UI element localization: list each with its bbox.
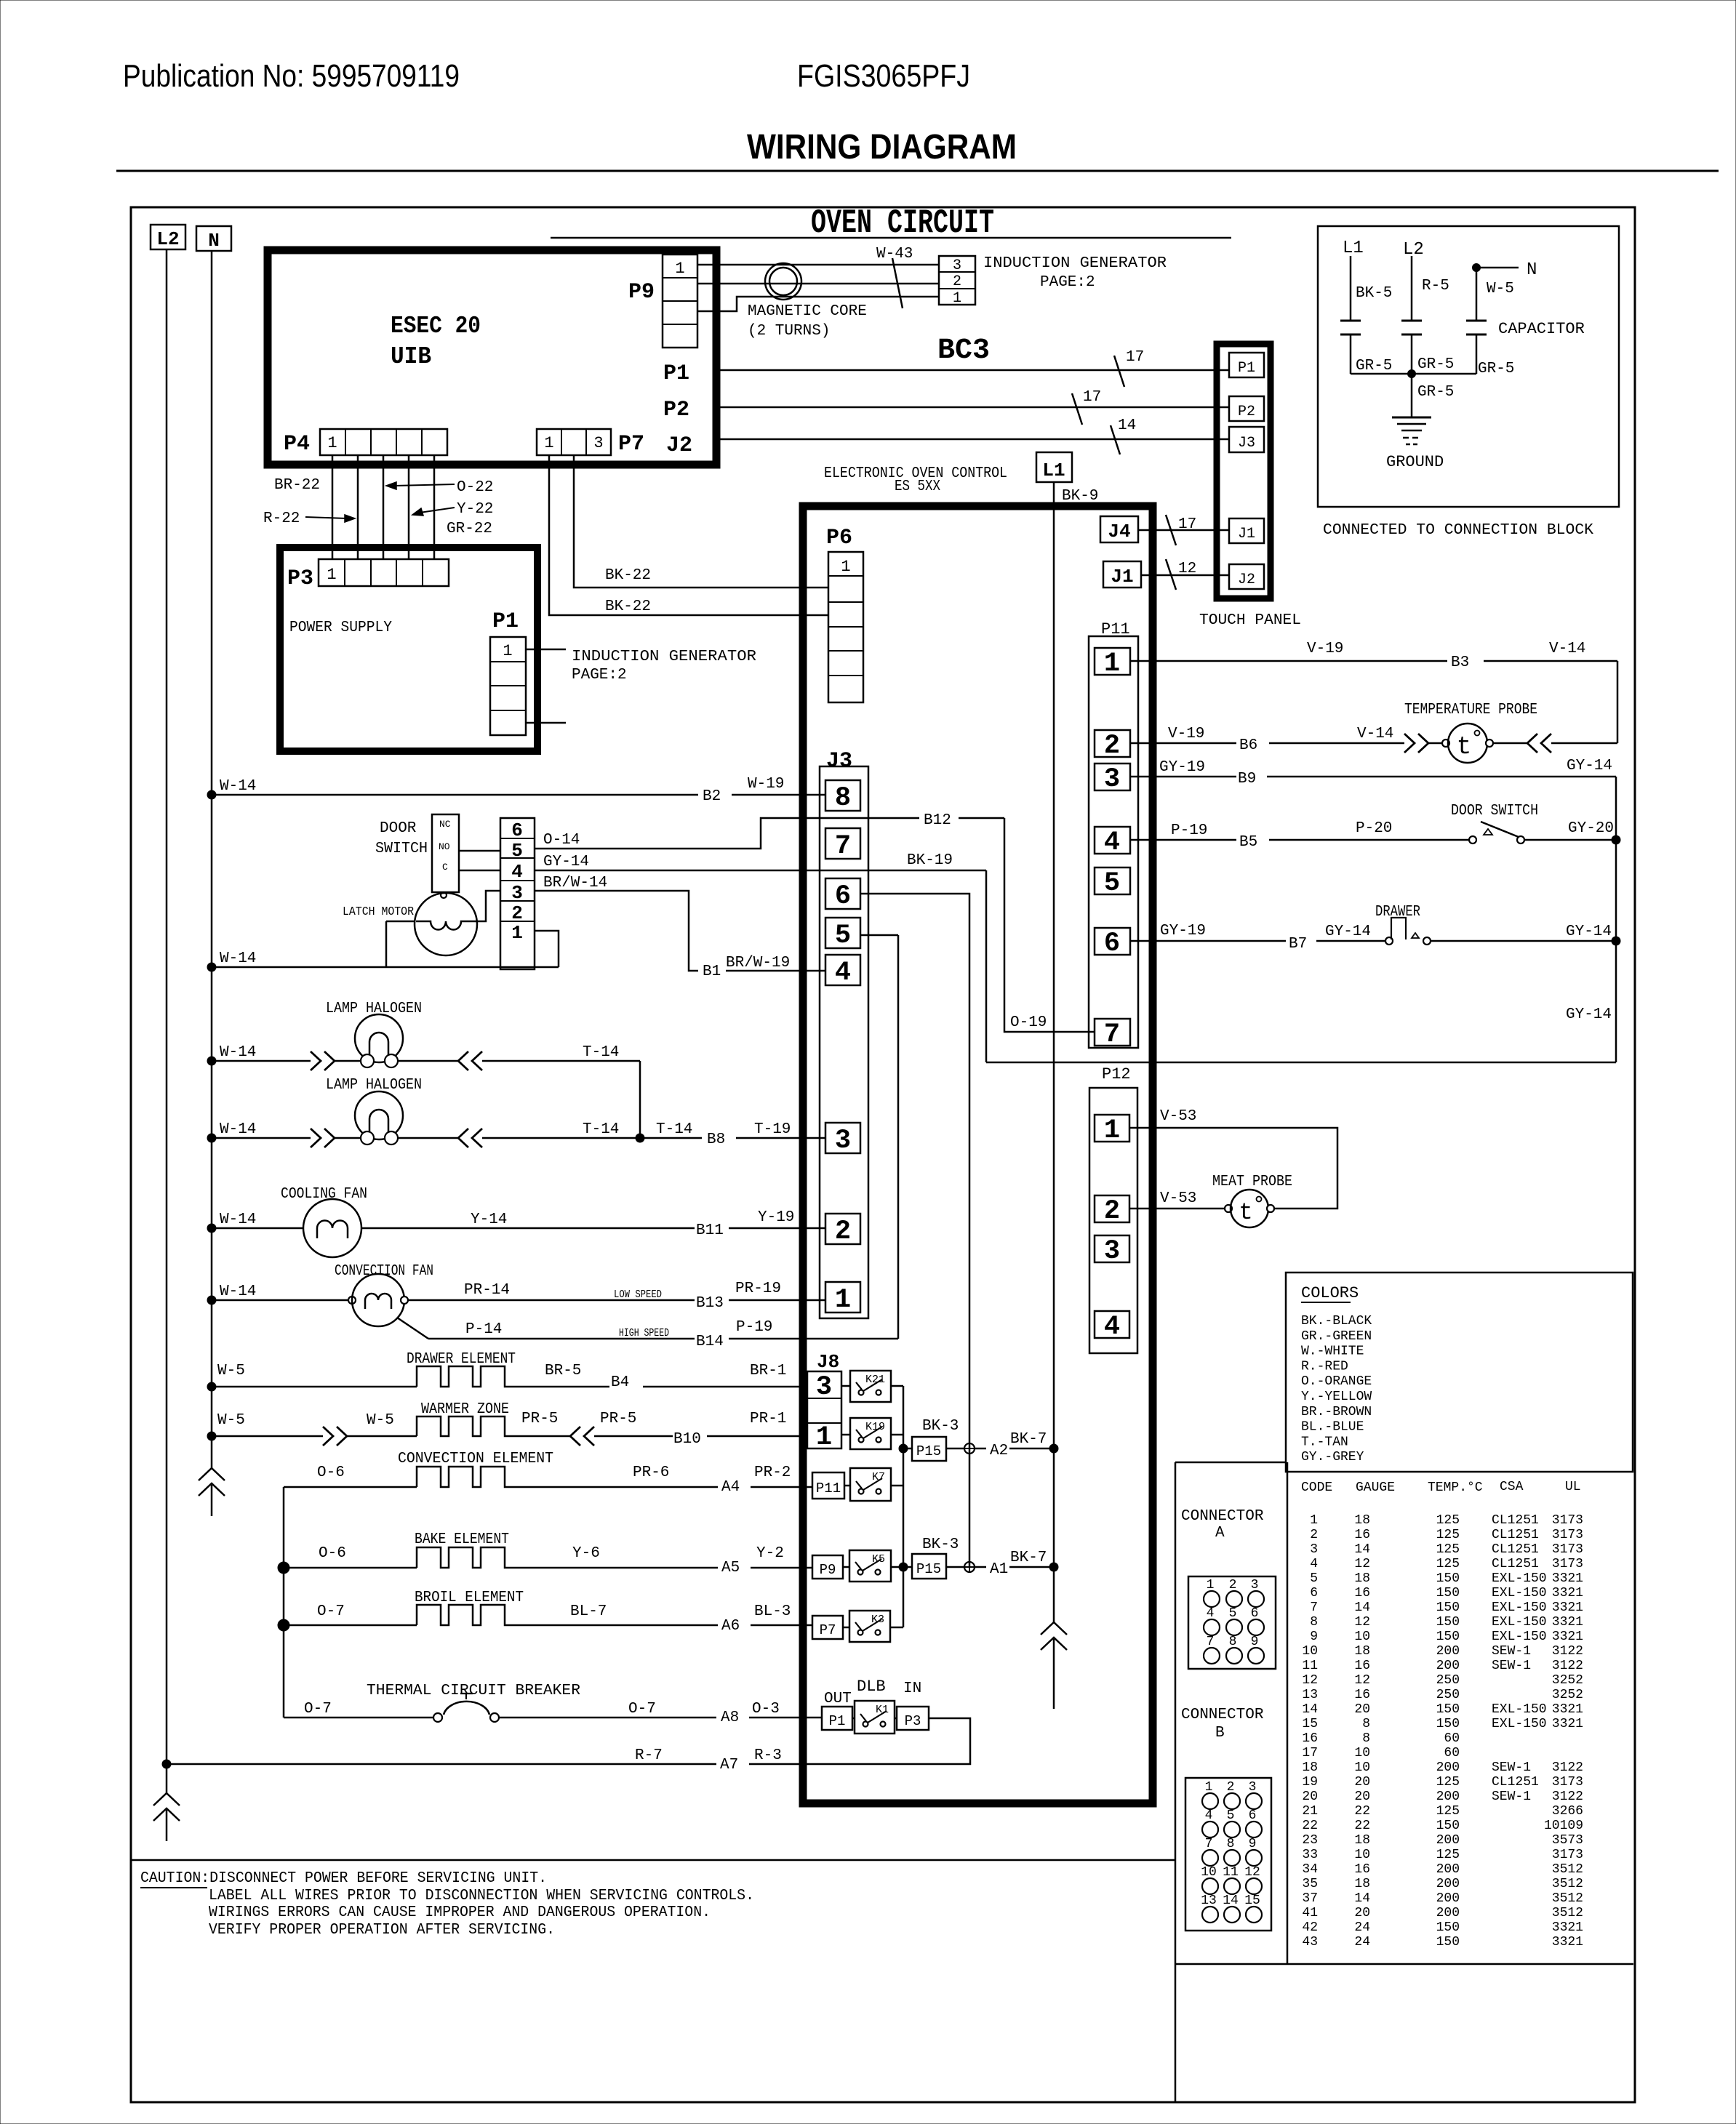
svg-text:3: 3	[1310, 1542, 1318, 1557]
svg-text:18: 18	[1354, 1571, 1370, 1586]
door switch contact (right)	[1469, 836, 1476, 843]
svg-text:B4: B4	[611, 1374, 629, 1391]
svg-text:BK-19: BK-19	[907, 852, 953, 869]
svg-text:BK-3: BK-3	[922, 1418, 959, 1435]
svg-text:4: 4	[835, 958, 851, 988]
svg-text:4: 4	[1207, 1606, 1215, 1621]
wire W-14 top row to J3-8 (B2/W-19)	[207, 790, 216, 799]
wire BK-22 lower (P7-1 to P6-3)	[549, 455, 828, 615]
svg-text:22: 22	[1302, 1819, 1318, 1833]
svg-text:2: 2	[1104, 1196, 1120, 1227]
svg-text:3252: 3252	[1552, 1688, 1583, 1702]
junction dot GR-5 bus	[1408, 370, 1416, 378]
svg-text:3: 3	[816, 1372, 832, 1403]
wire K7 to relay bus	[891, 1485, 903, 1487]
connector J3 pin 5	[825, 918, 860, 948]
thermal circuit breaker	[284, 1717, 433, 1719]
svg-text:125: 125	[1436, 1848, 1460, 1862]
svg-text:37: 37	[1302, 1891, 1318, 1906]
svg-text:150: 150	[1436, 1586, 1460, 1600]
svg-text:SEW-1: SEW-1	[1492, 1760, 1531, 1775]
svg-text:150: 150	[1436, 1571, 1460, 1586]
svg-text:1: 1	[511, 922, 523, 944]
svg-text:Y-6: Y-6	[572, 1545, 600, 1562]
connector J3 pin 1	[825, 1282, 860, 1313]
svg-text:20: 20	[1354, 1702, 1370, 1717]
svg-text:42: 42	[1302, 1920, 1318, 1935]
svg-text:20: 20	[1302, 1790, 1318, 1804]
svg-text:3252: 3252	[1552, 1673, 1583, 1688]
svg-text:THERMAL CIRCUIT BREAKER: THERMAL CIRCUIT BREAKER	[367, 1683, 580, 1699]
svg-text:CONNECTED TO CONNECTION BLOCK: CONNECTED TO CONNECTION BLOCK	[1323, 522, 1593, 539]
svg-text:7: 7	[835, 831, 851, 862]
svg-text:O-7: O-7	[304, 1701, 332, 1718]
latch motor	[415, 893, 477, 955]
connector J8 (3 positions)	[807, 1371, 841, 1448]
svg-text:J1: J1	[1111, 566, 1133, 588]
wire latch motor to W-14 loop	[386, 921, 415, 923]
svg-text:200: 200	[1436, 1862, 1460, 1877]
svg-text:B10: B10	[673, 1431, 701, 1448]
svg-text:BL-3: BL-3	[754, 1603, 791, 1620]
svg-text:GR-5: GR-5	[1478, 361, 1514, 377]
wire A1 row BK-3/BK-7	[946, 1566, 964, 1568]
svg-text:P-19: P-19	[1171, 822, 1207, 839]
svg-text:T-14: T-14	[583, 1121, 619, 1138]
touch panel connector J1	[1229, 518, 1264, 543]
svg-text:P15: P15	[916, 1443, 941, 1459]
connector P11 pin 1	[1095, 648, 1130, 675]
wire J8-1 to K19	[841, 1434, 850, 1436]
svg-text:22: 22	[1354, 1804, 1370, 1819]
svg-text:GR-5: GR-5	[1356, 358, 1392, 374]
svg-text:14: 14	[1354, 1542, 1370, 1557]
svg-text:1: 1	[953, 290, 961, 307]
svg-text:GY-20: GY-20	[1568, 820, 1614, 837]
svg-text:35: 35	[1302, 1877, 1318, 1891]
svg-text:10: 10	[1354, 1760, 1370, 1775]
svg-text:3: 3	[1104, 1236, 1120, 1267]
svg-text:J1: J1	[1238, 526, 1255, 542]
svg-text:W-14: W-14	[220, 950, 256, 967]
svg-text:R-22: R-22	[263, 510, 300, 527]
svg-text:GY.-GREY: GY.-GREY	[1301, 1450, 1364, 1464]
svg-text:ES 5XX: ES 5XX	[895, 478, 940, 495]
wire O-14 row: pin5 to P11-7 (B12/O-19)	[535, 818, 919, 849]
wire L2 bus stub below junction	[166, 1764, 168, 1793]
svg-text:18: 18	[1354, 1644, 1370, 1659]
svg-text:1: 1	[503, 642, 512, 660]
wire J8-3 to K21	[841, 1385, 850, 1387]
svg-text:12: 12	[1178, 561, 1196, 577]
svg-text:WARMER ZONE: WARMER ZONE	[421, 1401, 509, 1418]
svg-text:150: 150	[1436, 1600, 1460, 1615]
svg-text:L2: L2	[1403, 240, 1424, 260]
svg-text:8: 8	[1362, 1731, 1370, 1746]
svg-text:8: 8	[835, 783, 851, 814]
svg-text:T-19: T-19	[754, 1121, 791, 1138]
svg-text:10109: 10109	[1544, 1819, 1583, 1833]
svg-text:A5: A5	[721, 1560, 740, 1576]
svg-text:9: 9	[1310, 1630, 1318, 1644]
svg-text:B12: B12	[924, 812, 951, 829]
wire PR-14 low speed row to J3-1 (B13)	[408, 1299, 695, 1302]
svg-text:BK-5: BK-5	[1356, 285, 1392, 302]
wire P-14 high speed row to J3-5 (B14)	[397, 1318, 428, 1339]
touch panel connector P1	[1229, 353, 1264, 377]
svg-text:1: 1	[327, 566, 336, 584]
svg-text:GR-5: GR-5	[1417, 356, 1454, 373]
svg-text:10: 10	[1302, 1644, 1318, 1659]
lamp halogen lower	[207, 1134, 216, 1142]
svg-text:10: 10	[1354, 1848, 1370, 1862]
svg-text:P3: P3	[905, 1713, 921, 1729]
svg-text:125: 125	[1436, 1528, 1460, 1542]
svg-text:EXL-150: EXL-150	[1492, 1571, 1547, 1586]
board pin P11 box	[812, 1472, 844, 1499]
svg-text:12: 12	[1244, 1865, 1260, 1880]
connection block box	[1318, 226, 1619, 507]
convection element	[284, 1486, 417, 1488]
junction dot broil row	[278, 1619, 289, 1631]
warmer zone element	[207, 1432, 216, 1440]
svg-text:DOOR SWITCH: DOOR SWITCH	[1451, 803, 1538, 819]
svg-text:1: 1	[327, 434, 337, 452]
svg-text:EXL-150: EXL-150	[1492, 1717, 1547, 1731]
svg-text:6: 6	[1104, 929, 1120, 959]
svg-text:L1: L1	[1343, 239, 1364, 258]
svg-text:B8: B8	[707, 1131, 725, 1148]
junction dot bus/P15 lower	[899, 1563, 908, 1571]
relay K21	[850, 1371, 891, 1402]
svg-text:B2: B2	[703, 788, 721, 805]
svg-text:6: 6	[511, 819, 523, 841]
svg-text:P-20: P-20	[1356, 820, 1392, 837]
connector column and wire table frame	[1175, 1462, 1286, 1464]
svg-text:T-14: T-14	[656, 1121, 692, 1138]
svg-text:CONNECTOR: CONNECTOR	[1181, 1707, 1264, 1723]
drawer element	[207, 1382, 216, 1391]
svg-text:GY-19: GY-19	[1160, 923, 1206, 939]
svg-text:10: 10	[1354, 1746, 1370, 1760]
svg-text:15: 15	[1302, 1717, 1318, 1731]
svg-text:7: 7	[1310, 1600, 1318, 1615]
svg-text:11: 11	[1223, 1865, 1239, 1880]
junction dot A2/BK-9 bus	[1049, 1444, 1058, 1453]
svg-text:1: 1	[1310, 1513, 1318, 1528]
svg-text:PR-5: PR-5	[600, 1411, 636, 1427]
svg-text:17: 17	[1126, 349, 1144, 366]
svg-text:200: 200	[1436, 1790, 1460, 1804]
svg-text:t: t	[1239, 1199, 1252, 1226]
svg-text:K7: K7	[872, 1471, 885, 1483]
splice P15 (lower)	[912, 1554, 946, 1579]
svg-text:CL1251: CL1251	[1492, 1557, 1539, 1571]
svg-text:18: 18	[1354, 1833, 1370, 1848]
svg-text:3321: 3321	[1552, 1571, 1583, 1586]
svg-text:B: B	[1215, 1725, 1225, 1742]
connector P9 (4 positions, pin 1 top)	[663, 255, 697, 348]
wire W-14 latch return row	[212, 966, 559, 969]
svg-text:4: 4	[511, 861, 523, 883]
node N terminal box	[196, 226, 231, 251]
svg-text:3512: 3512	[1552, 1891, 1583, 1906]
svg-text:12: 12	[1354, 1615, 1370, 1630]
outer sheet border	[131, 207, 1635, 2102]
wire BR/W-14 row: pin3 to J3-4 (B1/BR/W-19)	[535, 891, 698, 971]
svg-text:B13: B13	[696, 1295, 724, 1312]
bake element	[284, 1567, 417, 1569]
wire T-14 return upper lamp	[482, 1060, 640, 1062]
svg-text:W-14: W-14	[220, 1211, 256, 1228]
svg-text:O-7: O-7	[317, 1603, 345, 1620]
svg-text:3: 3	[1249, 1780, 1257, 1795]
svg-text:UIB: UIB	[391, 343, 431, 370]
svg-text:WIRINGS ERRORS CAN CAUSE IMPRO: WIRINGS ERRORS CAN CAUSE IMPROPER AND DA…	[209, 1904, 711, 1921]
svg-text:V-19: V-19	[1307, 641, 1343, 657]
svg-text:MAGNETIC CORE: MAGNETIC CORE	[748, 303, 867, 320]
svg-text:Y-2: Y-2	[756, 1545, 784, 1562]
svg-text:POWER SUPPLY: POWER SUPPLY	[289, 620, 392, 636]
caution section divider	[131, 1859, 1175, 1861]
wire P1-4 stub	[526, 722, 566, 724]
wire B5 row (P-19/P-20) from P11-4	[1130, 839, 1236, 841]
svg-text:3173: 3173	[1552, 1513, 1583, 1528]
svg-text:UL: UL	[1565, 1480, 1581, 1494]
svg-text:P1: P1	[1238, 360, 1255, 377]
svg-text:EXL-150: EXL-150	[1492, 1630, 1547, 1644]
svg-text:1: 1	[835, 1285, 851, 1315]
svg-text:J3: J3	[1238, 435, 1255, 452]
junction dot L2/A7 row	[162, 1760, 171, 1768]
svg-text:150: 150	[1436, 1935, 1460, 1949]
svg-text:W.-WHITE: W.-WHITE	[1301, 1344, 1364, 1359]
svg-text:Publication No: 5995709119: Publication No: 5995709119	[123, 58, 460, 94]
svg-text:125: 125	[1436, 1542, 1460, 1557]
touch panel connector P2	[1229, 396, 1264, 421]
svg-text:A4: A4	[721, 1479, 740, 1496]
svg-text:Y-14: Y-14	[471, 1211, 507, 1228]
svg-text:COLORS: COLORS	[1301, 1284, 1359, 1302]
svg-text:21: 21	[1302, 1804, 1318, 1819]
svg-text:150: 150	[1436, 1702, 1460, 1717]
svg-text:EXL-150: EXL-150	[1492, 1615, 1547, 1630]
lamp halogen upper	[207, 1057, 216, 1065]
wire P9 box to K5	[843, 1566, 849, 1568]
svg-text:20: 20	[1354, 1906, 1370, 1920]
svg-text:PAGE:2: PAGE:2	[572, 667, 627, 684]
svg-text:PR-2: PR-2	[754, 1464, 791, 1481]
capacitor C1	[1340, 320, 1361, 322]
svg-text:3321: 3321	[1552, 1600, 1583, 1615]
svg-text:9: 9	[1249, 1837, 1257, 1851]
svg-text:17: 17	[1178, 516, 1196, 533]
wire P7 box to K3	[843, 1627, 849, 1629]
wire pin3 to latch motor	[477, 891, 500, 921]
touch panel connector J3	[1229, 427, 1264, 452]
wire P9-1 W-43 ribbon top	[697, 264, 939, 266]
svg-text:41: 41	[1302, 1906, 1318, 1920]
off-page arrow on N bus	[199, 1468, 225, 1480]
svg-text:3173: 3173	[1552, 1528, 1583, 1542]
svg-text:W-14: W-14	[220, 1121, 256, 1138]
svg-text:TEMPERATURE PROBE: TEMPERATURE PROBE	[1404, 702, 1537, 718]
svg-text:20: 20	[1354, 1790, 1370, 1804]
svg-text:V-14: V-14	[1549, 641, 1585, 657]
connector P12 pin 1	[1095, 1115, 1129, 1142]
svg-text:24: 24	[1354, 1935, 1370, 1949]
svg-text:O-6: O-6	[319, 1545, 346, 1562]
svg-text:DOOR: DOOR	[380, 820, 417, 837]
wire P3 to A7 return loop	[803, 1718, 970, 1764]
svg-text:CL1251: CL1251	[1492, 1775, 1539, 1790]
off-page arrow on BK-9	[1041, 1622, 1067, 1635]
svg-text:EXL-150: EXL-150	[1492, 1586, 1547, 1600]
tally 17 on P2 wire	[1072, 393, 1082, 425]
svg-text:BK-22: BK-22	[605, 598, 651, 615]
node L1 box	[1036, 452, 1072, 482]
svg-text:DRAWER ELEMENT: DRAWER ELEMENT	[407, 1351, 516, 1368]
svg-text:J2: J2	[1238, 572, 1255, 588]
svg-text:B1: B1	[703, 963, 721, 980]
wire A2 row BK-3/BK-7	[946, 1448, 964, 1450]
svg-text:BR-22: BR-22	[274, 477, 320, 494]
svg-text:B9: B9	[1238, 771, 1256, 788]
wire P9-3 W-43 ribbon bottom with jog	[697, 297, 939, 311]
svg-text:PR-1: PR-1	[750, 1411, 786, 1427]
relay K7	[850, 1468, 891, 1501]
svg-text:A6: A6	[721, 1618, 740, 1635]
svg-text:B14: B14	[696, 1334, 724, 1350]
svg-text:3321: 3321	[1552, 1630, 1583, 1644]
svg-text:GR-5: GR-5	[1417, 384, 1454, 401]
svg-text:1: 1	[1205, 1780, 1213, 1795]
svg-text:P2: P2	[663, 398, 689, 422]
temperature probe	[1442, 740, 1449, 747]
svg-text:3173: 3173	[1552, 1775, 1583, 1790]
svg-text:CAUTION:DISCONNECT POWER BEFOR: CAUTION:DISCONNECT POWER BEFORE SERVICIN…	[140, 1870, 547, 1887]
svg-text:TEMP.°C: TEMP.°C	[1428, 1480, 1483, 1495]
svg-text:14: 14	[1223, 1893, 1239, 1908]
svg-text:V-53: V-53	[1160, 1108, 1196, 1125]
wire P1 to K1	[852, 1718, 855, 1720]
svg-text:BL-7: BL-7	[570, 1603, 607, 1620]
svg-text:V-53: V-53	[1160, 1190, 1196, 1207]
svg-text:2: 2	[1310, 1528, 1318, 1542]
svg-text:L2: L2	[156, 228, 179, 250]
svg-text:GY-14: GY-14	[1325, 923, 1371, 940]
svg-text:3: 3	[835, 1126, 851, 1156]
svg-text:P11: P11	[816, 1480, 841, 1496]
splice P15 (upper)	[912, 1437, 946, 1461]
drawer switch contact	[1385, 937, 1393, 945]
wire B3 row (V-19/V-14) from P11-1	[1130, 660, 1447, 662]
svg-text:GY-14: GY-14	[1567, 758, 1612, 774]
connector P7 (3 positions)	[537, 429, 611, 455]
wire K3 to relay bus	[890, 1627, 903, 1629]
svg-text:12: 12	[1354, 1557, 1370, 1571]
svg-text:3122: 3122	[1552, 1644, 1583, 1659]
svg-text:BROIL ELEMENT: BROIL ELEMENT	[415, 1590, 524, 1606]
svg-text:BR.-BROWN: BR.-BROWN	[1301, 1405, 1372, 1419]
connector J4 box	[1100, 516, 1138, 542]
svg-text:17: 17	[1083, 389, 1101, 406]
svg-text:(2 TURNS): (2 TURNS)	[748, 323, 830, 340]
wire J4 to touch panel J1	[1138, 529, 1229, 532]
svg-text:3: 3	[1104, 764, 1120, 795]
svg-text:PR-5: PR-5	[521, 1411, 558, 1427]
svg-text:LATCH MOTOR: LATCH MOTOR	[343, 905, 414, 919]
svg-text:LABEL ALL WIRES PRIOR TO DISCO: LABEL ALL WIRES PRIOR TO DISCONNECTION W…	[209, 1888, 754, 1904]
wire P1-1 to induction generator	[526, 649, 566, 651]
svg-text:PR-14: PR-14	[464, 1282, 510, 1299]
svg-text:O-22: O-22	[457, 479, 493, 496]
connector J3 pin 6	[825, 878, 860, 909]
svg-text:EXL-150: EXL-150	[1492, 1600, 1547, 1615]
svg-text:B7: B7	[1289, 936, 1307, 953]
junction dot GY bus / door switch	[1612, 835, 1620, 844]
svg-text:A: A	[1215, 1525, 1225, 1542]
wire P9-2 W-43 ribbon middle	[697, 283, 939, 285]
svg-text:CL1251: CL1251	[1492, 1513, 1539, 1528]
touch panel connector J2	[1229, 564, 1264, 589]
junction dot T-14	[636, 1134, 644, 1142]
board pin P7 box	[812, 1616, 843, 1639]
svg-text:GY-14: GY-14	[543, 854, 589, 870]
wire P1 row to touch panel	[716, 369, 1229, 372]
junction dot N bus latch row	[207, 963, 216, 971]
svg-text:BK-9: BK-9	[1062, 488, 1098, 505]
svg-text:BR/W-14: BR/W-14	[543, 875, 607, 891]
svg-text:200: 200	[1436, 1906, 1460, 1920]
temperature probe row (B6/V-19/V-14)	[1130, 742, 1236, 745]
svg-text:OUT: OUT	[824, 1691, 852, 1707]
svg-text:EXL-150: EXL-150	[1492, 1702, 1547, 1717]
svg-text:CSA: CSA	[1500, 1480, 1524, 1494]
svg-text:125: 125	[1436, 1557, 1460, 1571]
svg-text:4: 4	[1310, 1557, 1318, 1571]
connector P1 (4 positions)	[490, 637, 526, 735]
connector P12 pin 2	[1095, 1195, 1129, 1222]
svg-text:8: 8	[1229, 1635, 1237, 1649]
svg-text:5: 5	[1310, 1571, 1318, 1586]
connector P12 pin 3	[1095, 1235, 1129, 1262]
wire NO to connector pin5	[459, 850, 500, 852]
svg-text:8: 8	[1310, 1615, 1318, 1630]
svg-text:CAPACITOR: CAPACITOR	[1498, 320, 1585, 338]
tally 17 on J4 wire	[1166, 515, 1176, 545]
relay K5	[849, 1550, 891, 1582]
svg-text:6: 6	[1251, 1606, 1259, 1621]
svg-text:11: 11	[1302, 1659, 1318, 1673]
svg-text:Y.-YELLOW: Y.-YELLOW	[1301, 1390, 1372, 1404]
wire GY-14 row: pin4 through board (BK-19)	[535, 870, 986, 872]
svg-text:A7: A7	[720, 1757, 738, 1774]
svg-text:B5: B5	[1239, 834, 1257, 851]
svg-text:125: 125	[1436, 1775, 1460, 1790]
connector J3 pin 8	[825, 780, 860, 811]
svg-text:LOW SPEED: LOW SPEED	[614, 1289, 662, 1301]
svg-text:FGIS3065PFJ: FGIS3065PFJ	[797, 58, 970, 94]
svg-text:WIRING DIAGRAM: WIRING DIAGRAM	[747, 128, 1017, 167]
junction dot GY bus / drawer switch	[1612, 937, 1620, 945]
wire GY bus right vertical	[1615, 777, 1617, 1062]
connector P3 (5 positions)	[319, 559, 449, 586]
title rule	[116, 170, 1719, 172]
svg-text:O-3: O-3	[752, 1701, 780, 1718]
svg-text:3122: 3122	[1552, 1659, 1583, 1673]
svg-text:16: 16	[1354, 1528, 1370, 1542]
